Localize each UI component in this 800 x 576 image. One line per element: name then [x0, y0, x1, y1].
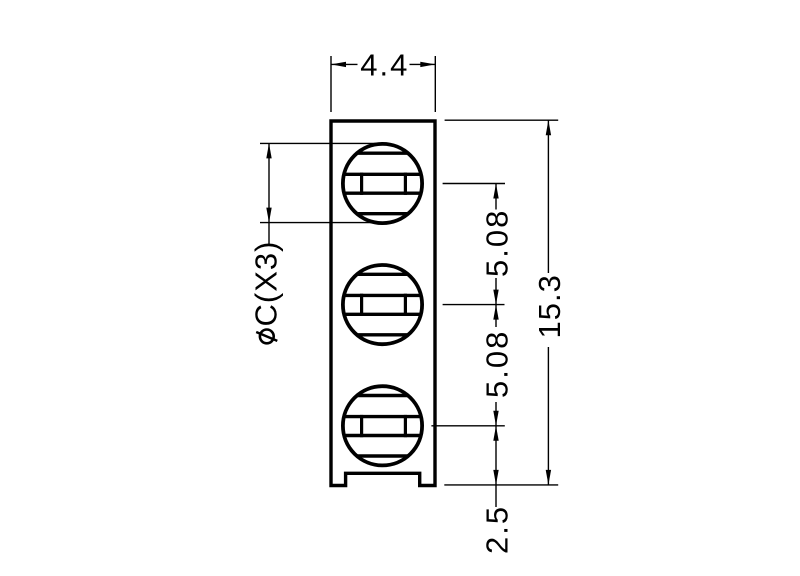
circle 3 top chord: [357, 394, 408, 397]
circle 3 mid upper chord: [344, 415, 421, 418]
circle 1 mid lower chord: [344, 191, 421, 194]
dim 4.4 dimension line right segment: [410, 63, 436, 65]
dim 5.08 lower top arrowhead: [493, 305, 498, 320]
dim 5.08 lower bottom arrowhead: [493, 411, 498, 426]
dim 5.08 upper top arrowhead: [493, 184, 498, 199]
dim 15.3 dimension line lower segment: [547, 347, 549, 485]
dim 15.3 dimension line upper segment: [547, 120, 549, 273]
dim 15.3 top arrowhead: [546, 120, 551, 135]
circle 3 mid lower chord: [344, 434, 421, 437]
dim 15.3 top extension line: [445, 119, 559, 121]
circle 1 right clamp vertical: [404, 173, 407, 195]
dim phiC top extension line: [260, 142, 383, 144]
dim 5.08 lower dimension line upper segment: [495, 305, 497, 327]
svg-text:2.5: 2.5: [479, 505, 514, 554]
dim 15.3 bottom extension line: [444, 484, 558, 486]
dim 4.4 right arrowhead: [420, 62, 435, 67]
dim phiC diameter symbol circle: [260, 330, 274, 344]
dim phiC bottom arrowhead: [266, 208, 271, 223]
dim 15.3 bottom arrowhead: [546, 470, 551, 485]
dim phiC bottom extension line: [260, 222, 383, 224]
dim 2.5 bottom arrowhead: [493, 470, 498, 485]
circle 2 center extension line: [443, 304, 505, 306]
clamp circle 1: [343, 144, 422, 223]
circle 1 left clamp vertical: [360, 173, 363, 195]
dim 5.08 upper dimension line lower segment: [495, 278, 497, 305]
dim phiC diameter symbol slash: [256, 332, 277, 341]
circle 2 mid upper chord: [344, 294, 421, 297]
circle 2 right clamp vertical: [404, 294, 407, 316]
body outline (terminal block side profile with feet): [331, 121, 435, 486]
dim phiC top arrowhead: [266, 143, 271, 158]
circle 3 right clamp vertical: [404, 415, 407, 437]
dim 5.08 lower dimension line lower segment: [495, 402, 497, 426]
clamp circle 2: [343, 265, 422, 344]
dim 4.4 dimension line left segment: [331, 63, 358, 65]
svg-text:5.08: 5.08: [479, 209, 514, 277]
circle 2 bottom chord: [357, 333, 408, 336]
circle 1 bottom chord: [357, 212, 408, 215]
dim 4.4 right extension line: [434, 56, 436, 112]
dim 5.08 upper bottom arrowhead: [493, 290, 498, 305]
clamp circle 3: [343, 386, 422, 465]
circle 3 center extension line: [431, 425, 504, 427]
dim 5.08 upper dimension line upper segment: [495, 184, 497, 210]
circle 1 top chord: [357, 151, 408, 154]
svg-text:4.4: 4.4: [360, 48, 409, 83]
circle 3 bottom chord: [357, 454, 408, 457]
dim phiC dimension line with tail: [268, 143, 270, 244]
dim 2.5 top arrowhead: [493, 426, 498, 441]
dim 4.4 left arrowhead: [331, 62, 346, 67]
svg-text:15.3: 15.3: [532, 274, 567, 338]
circle 2 left clamp vertical: [360, 294, 363, 316]
circle 2 top chord: [357, 273, 408, 276]
dim 2.5 dimension line with tail: [495, 426, 497, 507]
circle 1 center extension line: [443, 183, 505, 185]
svg-text:5.08: 5.08: [479, 330, 514, 398]
dim 4.4 left extension line: [330, 56, 332, 112]
circle 2 mid lower chord: [344, 313, 421, 316]
svg-text:C(X3): C(X3): [249, 241, 284, 327]
circle 1 mid upper chord: [344, 173, 421, 176]
circle 3 left clamp vertical: [360, 415, 363, 437]
